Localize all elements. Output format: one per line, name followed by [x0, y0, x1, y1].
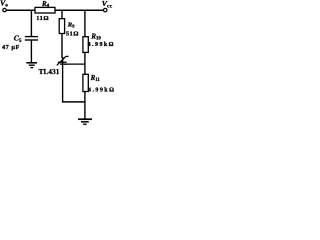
wire C5 branch vertical [30, 10, 32, 36]
svg-text:4.99kΩ: 4.99kΩ [88, 87, 115, 93]
svg-text:51Ω: 51Ω [66, 31, 79, 38]
label Vo [0, 0, 8, 9]
label 11 ohm [36, 15, 49, 22]
ground main [78, 119, 92, 124]
terminal Vo [3, 8, 6, 11]
resistor R4 [35, 7, 55, 13]
capacitor C5 [25, 37, 38, 40]
wire ground stub [84, 102, 86, 119]
label R11 [90, 75, 101, 83]
wire top horizontal Vo to Vcc [6, 9, 103, 11]
label C5 [14, 34, 22, 44]
resistor R9 [59, 19, 64, 34]
svg-text:4.99kΩ: 4.99kΩ [88, 42, 115, 48]
label R4 [41, 1, 50, 9]
wire R9 branch vertical top [61, 10, 63, 19]
label R10 [90, 33, 101, 41]
wire bottom anode to ground node [62, 101, 86, 103]
label 51 ohm [66, 31, 79, 38]
svg-text:47 μF: 47 μF [2, 44, 20, 51]
resistor R10 [83, 37, 88, 53]
svg-text:11Ω: 11Ω [36, 15, 49, 22]
label 47 uF [2, 44, 20, 51]
ground C5 [26, 63, 37, 68]
wire TL431 ref to divider node [64, 63, 85, 65]
wire R10 branch vertical top [84, 10, 86, 37]
svg-text:TL431: TL431 [39, 68, 60, 76]
label R10 value 4.99k [88, 42, 115, 48]
wire R11 bottom [84, 92, 86, 103]
wire R9 to TL431 cathode [61, 34, 63, 59]
terminal Vcc [103, 8, 107, 12]
wire R10 to node to R11 [84, 52, 86, 74]
label R9 [67, 22, 75, 29]
wire C5 to ground [30, 41, 32, 63]
resistor R11 [83, 74, 88, 91]
label TL431 [39, 68, 60, 76]
label R11 value 4.99k [88, 87, 115, 93]
label Vcc [102, 0, 113, 9]
regulator U TL431 [57, 56, 69, 102]
